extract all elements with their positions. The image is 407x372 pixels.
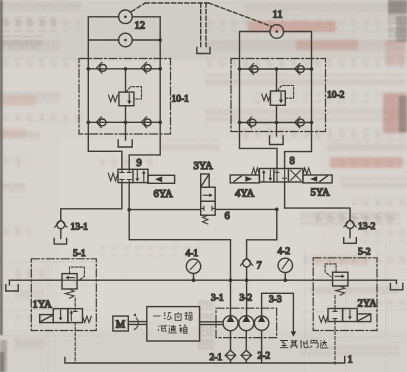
svg-text:6YA: 6YA (154, 189, 174, 200)
svg-text:3YA: 3YA (194, 161, 214, 172)
tank (10-2 drain) (270, 136, 284, 145)
wire: pump suctions (231, 330, 262, 363)
main unloading line (9, 279, 396, 281)
wire: motor12 left lines (88, 17, 118, 69)
svg-text:M: M (116, 320, 126, 331)
wire: valve9 right-bottom port / P line (129, 183, 230, 316)
unloading relief block 5-1 (dash-dot enclosure) (31, 259, 96, 331)
check valve (10-1 bottom-left) (96, 117, 106, 128)
svg-text:3-3: 3-3 (269, 295, 282, 305)
wire: 10-1 drain to tank (125, 122, 127, 140)
CJK label: to other motors (至其他马达) (280, 340, 328, 348)
drain line (dashed) from motors to tank (132, 3, 272, 48)
electric motor M (113, 316, 128, 331)
tank (13-1) (54, 239, 66, 245)
check valve 13-1 (55, 220, 67, 239)
wire: 10-2 left side (239, 69, 241, 123)
wire: 10-1 right leg to valve 9 port B (129, 122, 160, 169)
check valve (10-1 top-left) (97, 62, 107, 73)
wire: 10-1 left side (87, 69, 89, 123)
valve block 10-1 (dash-dot enclosure) (79, 59, 171, 135)
wire: 10-1 right side (159, 69, 161, 123)
drain (dashed) 5-2 to tank (334, 322, 336, 365)
check valve (10-1 bottom-right) (141, 117, 151, 128)
wire: 10-2 top bus (240, 68, 312, 70)
node pump 3-1 line (229, 278, 233, 282)
wire: valve9 left-bottom port to 13-1 (61, 183, 122, 220)
pump 3-1 (223, 315, 238, 331)
wire: 10-2 right leg to valve 8 (285, 123, 312, 169)
solenoid valve 2YA (319, 309, 371, 323)
svg-text:8: 8 (290, 156, 295, 167)
svg-text:12: 12 (135, 21, 146, 32)
pressure gauge 4-2 (278, 258, 292, 280)
gear reducer box (147, 307, 200, 341)
check valve (10-2 top-right) (295, 64, 305, 75)
check valve (10-2 bottom-left) (247, 117, 257, 128)
reddish bleed marks (0, 21, 406, 265)
wire: 10-2 left leg to valve 8 (240, 123, 278, 169)
node pump 3-2 line (245, 278, 249, 282)
svg-text:3-1: 3-1 (211, 294, 224, 304)
tank (10-1 drain) (118, 140, 132, 147)
svg-text:10-2: 10-2 (327, 91, 345, 101)
CJK label: gear reducer (一级齿轮/减速箱) (153, 312, 193, 333)
check valve (10-1 top-right) (141, 62, 151, 73)
solenoid valve 1YA (40, 309, 92, 323)
pump 3-2 (239, 315, 254, 331)
filter 2-2 (241, 350, 251, 363)
node: motor12 right junction (158, 38, 162, 42)
svg-text:6: 6 (225, 211, 230, 222)
svg-text:1YA: 1YA (33, 300, 53, 311)
relief valve 5-1 (62, 267, 84, 298)
wire: P cross line valve9-valve6-valve8 (129, 208, 277, 210)
tank (main line right) (395, 280, 397, 283)
node under valve 9 (127, 208, 131, 212)
node gauge 4-1 (192, 278, 196, 282)
shaft M to gearbox with rotation arrow (128, 322, 146, 325)
valve block 10-2 (dash-dot enclosure) (231, 59, 326, 132)
check valve 13-2 (344, 220, 356, 238)
wire: motor12 right lines (132, 17, 160, 69)
motor 12 (tandem hydraulic motors) (119, 10, 133, 47)
svg-text:5YA: 5YA (311, 188, 331, 199)
tank line (reservoir 1) (65, 357, 345, 364)
svg-text:5-1: 5-1 (73, 249, 86, 259)
valve 9 (2-pos directional, solenoid 6YA) (108, 169, 174, 183)
svg-text:2YA: 2YA (358, 299, 378, 310)
shaft gearbox to pumps (200, 322, 223, 325)
svg-text:13-2: 13-2 (358, 222, 376, 232)
check valve 7 (241, 258, 253, 316)
tank (drain) (197, 48, 210, 54)
pressure gauge 4-1 (186, 259, 200, 280)
check valve (10-2 top-left) (249, 64, 259, 75)
faint table rules from reverse side (0, 245, 407, 372)
svg-text:3-2: 3-2 (240, 294, 253, 304)
wire: 10-1 top bus (88, 68, 160, 70)
valve 8 (3-pos directional, solenoids 4YA/5YA) (230, 168, 332, 183)
pilot line (dashed) 5-2 (334, 295, 336, 308)
node gauge 4-2 (284, 278, 288, 282)
wire: motor11 right line (284, 32, 312, 70)
svg-text:5-2: 5-2 (358, 248, 371, 258)
pilot line (dashed) 5-1 (74, 298, 76, 308)
svg-text:13-1: 13-1 (71, 223, 89, 233)
drain (dashed) 5-1 to tank (74, 323, 76, 363)
valve 6 (2-pos, solenoid 3YA) (201, 174, 216, 224)
svg-text:1: 1 (348, 355, 353, 366)
check valve (10-2 bottom-right) (295, 117, 305, 128)
wire: 10-2 drain to tank (276, 123, 278, 137)
svg-text:2-2: 2-2 (258, 352, 271, 362)
wire: 10-1 bottom bus (88, 121, 160, 123)
wire: 10-2 bottom bus (240, 122, 312, 124)
relief valve 10-1 (109, 69, 142, 123)
svg-text:2-1: 2-1 (210, 353, 223, 363)
wire: pump 3-3 delivery to other motors (262, 293, 294, 331)
svg-text:4-2: 4-2 (278, 247, 291, 257)
pump 3-3 (254, 315, 268, 330)
svg-text:4YA: 4YA (235, 189, 255, 200)
pump unit enclosure (dash-dot) (216, 308, 277, 337)
motor 11 (hydraulic motor) (270, 25, 284, 39)
svg-text:10-1: 10-1 (172, 95, 190, 105)
wire: 10-1 left leg to valve 9 port A (88, 122, 122, 169)
wire: valve8 P leg down and across to pumps (247, 209, 277, 257)
relief valve 10-2 (262, 69, 294, 123)
svg-text:4-1: 4-1 (186, 249, 199, 259)
svg-text:7: 7 (257, 261, 262, 272)
unloading relief block 5-2 (dash-dot enclosure) (313, 258, 377, 331)
relief valve 5-2 (325, 264, 348, 295)
svg-text:9: 9 (137, 158, 142, 169)
tank (main line left) (8, 280, 10, 285)
svg-text:11: 11 (273, 10, 283, 21)
nodes 10-2 (238, 67, 314, 124)
filter 2-1 (225, 350, 235, 363)
node under valve 8 (275, 208, 279, 212)
wire: motor11 left line (240, 32, 271, 70)
wire: 10-2 right side (311, 69, 313, 123)
wire: valve8 right-bottom port to 13-2 (285, 182, 350, 219)
tank (13-2) (344, 238, 357, 244)
nodes 10-1 (87, 67, 163, 124)
